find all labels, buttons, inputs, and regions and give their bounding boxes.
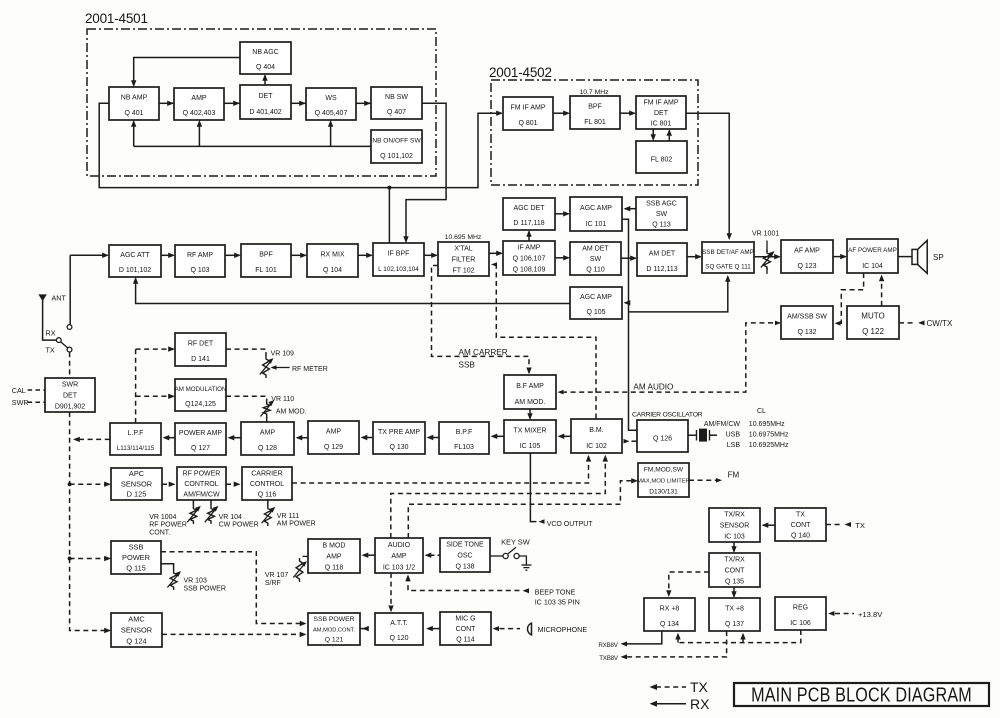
svg-text:SSB: SSB [459, 360, 476, 369]
wire BPF to RX MIX [291, 254, 306, 256]
dashed REG distribution bus [678, 630, 801, 643]
svg-text:SP: SP [933, 253, 944, 262]
dashed MICROPHONE to MIC G [493, 626, 500, 631]
svg-text:AF POWER AMP: AF POWER AMP [848, 247, 897, 254]
block AMP Q402,403 [174, 88, 224, 120]
dashed AMC SENSOR to Q121 lower [162, 633, 305, 635]
wire riser to NB AMP bottom [133, 122, 135, 147]
dashed TXRX CONT to RX+8 [669, 572, 709, 595]
block SSB DET/AF AMP SQ GATE Q111 [702, 242, 754, 273]
VR1004 potentiometer [192, 500, 194, 505]
svg-text:SSB: SSB [129, 542, 144, 551]
svg-text:TX +8: TX +8 [725, 606, 744, 613]
svg-text:10.6975MHz: 10.6975MHz [749, 432, 789, 439]
wire AF POWER AMP to speaker [898, 256, 912, 258]
svg-text:Q 110: Q 110 [586, 267, 605, 274]
group box 2001-4501 [87, 29, 436, 176]
dashed BEEP TONE into AUDIO AMP [405, 575, 410, 582]
svg-text:A.T.T.: A.T.T. [390, 620, 408, 627]
block AF AMP Q123 [781, 240, 833, 273]
VR110 potentiometer [263, 401, 270, 417]
block AGC AMP Q105 [570, 287, 622, 319]
svg-text:CONT: CONT [456, 626, 477, 633]
wire IF AMP to AM DET SW [555, 257, 569, 259]
wire DET to NB AGC [264, 76, 266, 86]
svg-text:Q 128: Q 128 [258, 445, 277, 452]
svg-text:CONT.: CONT. [149, 529, 170, 536]
speaker symbol SP [912, 249, 918, 264]
svg-text:2001-4502: 2001-4502 [489, 65, 552, 80]
svg-text:VR 103: VR 103 [184, 578, 207, 585]
VR109 potentiometer [263, 356, 270, 378]
svg-text:RX: RX [46, 329, 56, 338]
dashed AM MODULATION to VR110 [226, 396, 267, 401]
wire TXRX CONT to TX+8 [733, 587, 735, 597]
block SIDE TONE OSC Q138 [440, 538, 490, 572]
crystal symbol [696, 430, 698, 441]
block carrier oscillator Q126 [637, 420, 688, 452]
svg-text:NB AGC: NB AGC [252, 49, 278, 56]
svg-text:AM MODULATION: AM MODULATION [175, 386, 227, 393]
VR104 potentiometer [210, 500, 212, 505]
svg-text:L113/114/115: L113/114/115 [117, 445, 155, 452]
svg-text:+13.8V: +13.8V [858, 610, 883, 619]
VR111 potentiometer [267, 500, 269, 506]
block REG IC106 [775, 597, 826, 630]
block IF BPF L102,103,104 [373, 243, 424, 276]
svg-text:AMP: AMP [326, 554, 342, 561]
svg-text:AF AMP: AF AMP [794, 248, 820, 255]
block AMC SENSOR Q124 [111, 613, 162, 647]
svg-text:TX PRE AMP: TX PRE AMP [378, 429, 420, 436]
wire AGC bus branch to SSB DET bottom [629, 277, 728, 312]
svg-text:VCO OUTPUT: VCO OUTPUT [547, 521, 594, 528]
svg-text:AM POWER: AM POWER [277, 521, 316, 528]
VR107 potentiometer [303, 555, 309, 557]
svg-text:Q 105: Q 105 [586, 309, 605, 316]
block SSB POWER Q121 [308, 613, 360, 645]
dashed CAL input [28, 389, 45, 391]
switch contact RX [67, 325, 72, 330]
svg-text:RX +8: RX +8 [660, 606, 680, 613]
dashed carrier line XTAL to BM [491, 262, 497, 267]
block TX CONT Q140 [775, 508, 826, 541]
svg-text:MIC G: MIC G [455, 615, 475, 622]
dashed branch into AM MODULATION [136, 395, 174, 397]
svg-text:Q 402,403: Q 402,403 [183, 110, 216, 117]
block AGC DET D117,118 [503, 198, 555, 230]
svg-text:RX: RX [690, 696, 710, 712]
svg-text:AM/FM/CW: AM/FM/CW [704, 421, 741, 428]
svg-text:DET: DET [63, 393, 78, 400]
svg-text:SIDE TONE: SIDE TONE [446, 542, 484, 549]
block NB AGC Q404 [240, 42, 291, 74]
microphone symbol [527, 622, 531, 635]
svg-text:AM DET: AM DET [649, 251, 676, 258]
svg-text:Q 135: Q 135 [725, 578, 744, 585]
block WS Q405,407 [306, 88, 356, 120]
block TX PRE AMP Q130 [373, 422, 425, 454]
svg-text:CARRIER OSCILLATOR: CARRIER OSCILLATOR [632, 412, 703, 419]
svg-text:IC 103 35 PIN: IC 103 35 PIN [535, 598, 580, 607]
svg-text:SENSOR: SENSOR [720, 523, 750, 530]
svg-text:Q 405,407: Q 405,407 [315, 110, 348, 117]
svg-text:DET: DET [654, 110, 669, 117]
svg-text:Q 130: Q 130 [389, 444, 408, 451]
wire AMP Q129 to AMP Q128 [300, 437, 309, 439]
svg-text:Q 407: Q 407 [387, 109, 406, 116]
svg-text:D 401,402: D 401,402 [249, 109, 281, 116]
svg-text:TX MIXER: TX MIXER [513, 428, 546, 435]
junction on NB loop [387, 186, 391, 190]
svg-text:Q 104: Q 104 [323, 267, 342, 274]
wire MIC G to ATT [432, 628, 441, 630]
dashed RF POWER CONTROL to CARRIER CONTROL [226, 483, 239, 485]
wire FL802 to IC801 [668, 131, 670, 142]
dashed TX+8 output TXB8V [623, 631, 727, 657]
wire SSB POWER Q115 to VR103 [161, 564, 174, 570]
wire NB ON/OFF SW control bus [134, 145, 371, 147]
svg-text:FM IF AMP: FM IF AMP [644, 99, 679, 106]
wire AGC feedback to AGC ATT bottom [136, 279, 570, 304]
block XTAL FILTER FT102 [438, 242, 489, 276]
switch arm [61, 342, 68, 348]
svg-text:SWR: SWR [62, 382, 78, 389]
svg-text:POWER: POWER [122, 553, 150, 562]
svg-text:TX: TX [796, 511, 805, 518]
svg-text:Q 116: Q 116 [258, 492, 277, 499]
svg-text:AM CARRER: AM CARRER [459, 348, 508, 357]
svg-text:Q 134: Q 134 [660, 621, 679, 628]
dashed IC104 to AM/SSB SW [838, 273, 864, 323]
svg-text:CARRIER: CARRIER [251, 470, 283, 477]
block NB AMP Q401 [109, 87, 159, 120]
block BPF FL103 [439, 422, 489, 454]
svg-text:CW/TX: CW/TX [927, 319, 953, 328]
block NB SW Q407 [371, 87, 422, 119]
svg-text:VR 107: VR 107 [265, 572, 288, 579]
svg-text:Q 124: Q 124 [126, 636, 146, 645]
legend TX dashed arrow [656, 686, 686, 688]
svg-text:SWR: SWR [12, 398, 29, 407]
svg-text:AM/FM/CW: AM/FM/CW [183, 492, 220, 499]
wire BPF FL801 to IC801 [620, 112, 635, 114]
svg-text:B MOD: B MOD [323, 543, 346, 550]
svg-text:APC: APC [129, 469, 145, 478]
svg-text:Q 106,107: Q 106,107 [513, 256, 546, 263]
svg-text:Q 115: Q 115 [126, 564, 146, 573]
svg-text:AMP: AMP [260, 430, 276, 437]
svg-text:CONTROL: CONTROL [250, 481, 284, 488]
svg-text:D 117,118: D 117,118 [513, 220, 544, 227]
block MIC G CONT Q114 [440, 612, 491, 645]
svg-text:NB SW: NB SW [385, 94, 408, 101]
dashed CW/TX input to MUTO [899, 322, 916, 324]
svg-text:Q 132: Q 132 [797, 329, 816, 336]
block DET D401,402 [240, 85, 291, 119]
svg-text:FT 102: FT 102 [452, 267, 474, 274]
wire SIDE TONE to KEY SW [490, 555, 503, 557]
svg-text:VR 104: VR 104 [219, 514, 242, 521]
svg-text:SENSOR: SENSOR [121, 479, 152, 488]
svg-text:Q 114: Q 114 [456, 637, 475, 644]
wire RX+8 output RXB8V [623, 631, 662, 644]
svg-text:FL 101: FL 101 [255, 267, 277, 274]
svg-text:X'TAL: X'TAL [454, 246, 472, 253]
block FM MOD SW limiter D130/131 [637, 463, 690, 497]
block AMP Q128 [241, 422, 294, 455]
svg-text:Q 118: Q 118 [325, 564, 344, 571]
svg-text:RF AMP: RF AMP [187, 252, 213, 259]
wire ATT to SSB POWER Q121 [360, 628, 368, 630]
block B MOD AMP Q118 [308, 539, 360, 573]
svg-text:CONT: CONT [725, 568, 746, 575]
block TX+8 Q137 [709, 598, 760, 631]
svg-text:SSB AGC: SSB AGC [646, 200, 677, 207]
wire SSB AGC SW to IC101 [625, 208, 636, 210]
svg-text:CL: CL [757, 408, 766, 415]
svg-text:TX: TX [46, 345, 55, 354]
wire IC801 to FL802 [652, 129, 654, 140]
wire NB AGC feedback to NB AMP [134, 58, 240, 86]
svg-text:CAL: CAL [12, 386, 26, 395]
svg-text:10.695 MHz: 10.695 MHz [445, 234, 482, 241]
svg-text:BPF: BPF [259, 252, 273, 259]
wire RF AMP to BPF [225, 254, 240, 256]
block TX/RX CONT Q135 [709, 553, 760, 587]
svg-text:MICROPHONE: MICROPHONE [538, 625, 588, 634]
svg-text:AGC DET: AGC DET [513, 205, 545, 212]
svg-text:RF DET: RF DET [188, 341, 214, 348]
dashed APC to RF POWER CONTROL [162, 483, 174, 485]
svg-text:RX MIX: RX MIX [320, 252, 344, 259]
block AM/SSB SW Q132 [781, 306, 833, 339]
svg-text:Q 140: Q 140 [791, 533, 810, 540]
svg-text:Q 113: Q 113 [652, 222, 671, 229]
wire FM IF AMP to BPF FL801 [553, 112, 569, 114]
block AGC AMP IC101 [570, 197, 622, 231]
group box 2001-4502 [491, 80, 698, 185]
svg-text:Q124,125: Q124,125 [185, 401, 216, 408]
dashed AM AUDIO line BF AMP to AM/SSB SW [558, 390, 564, 395]
dashed CARRIER CONTROL to BM bottom [292, 457, 589, 484]
wire DET to WS [291, 102, 306, 104]
wire BF AMP to TX MIXER [529, 409, 531, 419]
wire POWER AMP to LPF [167, 437, 175, 439]
svg-text:AM,MOD,CONT.: AM,MOD,CONT. [313, 627, 355, 633]
VR1001 potentiometer [766, 241, 768, 253]
svg-text:AM DET: AM DET [582, 245, 609, 252]
wire AGC DET to AGC AMP IC101 [555, 213, 569, 215]
wire RX input to AGC ATT [70, 254, 107, 256]
svg-text:KEY SW: KEY SW [501, 538, 530, 547]
dashed SWR input [28, 401, 45, 403]
block LPF L113/114/115 [110, 423, 161, 455]
wire AGC bus arrow into AGC AMP Q105 [625, 302, 629, 304]
block RF POWER CONTROL [177, 467, 226, 500]
dashed branch to SSB POWER Q115 [68, 557, 72, 561]
svg-text:FL 801: FL 801 [584, 119, 606, 126]
svg-text:SENSOR: SENSOR [121, 626, 152, 635]
svg-text:MAIN PCB BLOCK DIAGRAM: MAIN PCB BLOCK DIAGRAM [751, 684, 972, 706]
svg-text:IC 106: IC 106 [790, 620, 811, 627]
wire IF BPF to XTAL FILTER [424, 254, 437, 256]
wire TX PRE AMP to AMP Q129 [365, 437, 374, 439]
switch contact TX [67, 347, 72, 352]
svg-text:POWER AMP: POWER AMP [179, 430, 223, 437]
antenna symbol ANT [38, 294, 46, 301]
block TX/RX SENSOR IC103 [709, 508, 760, 542]
svg-text:DET: DET [259, 93, 274, 100]
wire BPF FL103 to TX PRE AMP [431, 437, 440, 439]
svg-text:SSB POWER: SSB POWER [313, 616, 354, 623]
svg-text:IC 801: IC 801 [651, 121, 672, 128]
wire VR110 into AMP Q128 [266, 417, 268, 422]
block SSB POWER Q115 [111, 541, 161, 574]
wire TX CONT to TXRX SENSOR [767, 524, 776, 526]
RF METER tap arrow [272, 367, 290, 369]
svg-text:AGC ATT: AGC ATT [120, 252, 150, 259]
wire TX MIXER to BPF FL103 [495, 435, 504, 437]
svg-text:MUTO: MUTO [861, 312, 884, 321]
svg-text:AMP: AMP [391, 553, 407, 560]
svg-text:D901,902: D901,902 [55, 403, 85, 410]
block POWER AMP Q127 [175, 423, 226, 455]
svg-text:Q 121: Q 121 [325, 637, 344, 644]
svg-text:USB: USB [726, 432, 741, 439]
svg-text:WS: WS [325, 95, 337, 102]
svg-text:NB ON/OFF SW: NB ON/OFF SW [372, 138, 421, 145]
VR103 potentiometer [170, 570, 177, 590]
block AM DET D112,113 [637, 243, 687, 276]
svg-text:IC 103: IC 103 [724, 533, 745, 540]
svg-text:2001-4501: 2001-4501 [85, 11, 148, 26]
block APC SENSOR D125 [111, 468, 162, 500]
svg-text:FL 802: FL 802 [651, 157, 673, 164]
dashed arrow into RX+8 bottom [677, 635, 679, 643]
wire riser to AMP bottom [198, 122, 200, 147]
block AUDIO AMP IC103 [375, 538, 423, 573]
wire SENSOR to TXRX CONT [733, 542, 735, 552]
dashed branch to APC SENSOR [68, 482, 72, 486]
svg-text:AMC: AMC [128, 615, 145, 624]
svg-text:SSB DET/AF AMP: SSB DET/AF AMP [702, 249, 754, 256]
dashed riser LPF to RF DET and AM MODULATION [135, 349, 137, 423]
wire AMP to DET [224, 102, 240, 104]
wire BM to TX MIXER [562, 435, 571, 437]
wire IF AMP to AGC DET [528, 232, 530, 242]
svg-text:VR 110: VR 110 [271, 396, 294, 403]
svg-text:IC 101: IC 101 [586, 221, 607, 228]
block FM IF AMP DET IC801 [636, 96, 686, 129]
svg-text:D 141: D 141 [191, 356, 210, 363]
svg-text:D130/131: D130/131 [649, 488, 678, 495]
block IF AMP Q106-109 [503, 241, 555, 275]
svg-text:CW POWER: CW POWER [219, 522, 259, 529]
wire branch to IF BPF top [388, 188, 390, 243]
svg-text:Q 126: Q 126 [653, 436, 672, 443]
dashed TX bus below SWR DET [70, 412, 110, 631]
svg-text:AMP: AMP [326, 429, 342, 436]
block AMP Q129 [308, 421, 359, 454]
block AGC ATT D101,102 [109, 245, 161, 277]
dashed AM CARRER line XTAL to BF AMP [432, 266, 530, 373]
wire SSB DET through VR1001 to AF AMP [754, 256, 780, 258]
wire XTAL FILTER to IF AMP [489, 252, 502, 254]
wire NB AMP to AMP [159, 102, 174, 104]
block BPF FL101 [241, 244, 291, 277]
svg-text:D 101,102: D 101,102 [119, 267, 151, 274]
svg-text:SW: SW [656, 211, 668, 218]
svg-text:SSB POWER: SSB POWER [184, 586, 226, 593]
svg-text:IC 104: IC 104 [862, 263, 883, 270]
svg-text:B.P.F: B.P.F [456, 429, 473, 436]
svg-text:TX/RX: TX/RX [724, 557, 745, 564]
ground symbol [521, 564, 531, 566]
wire AMP Q128 to POWER AMP [232, 437, 241, 439]
svg-text:MAX,MOD LIMITER: MAX,MOD LIMITER [637, 479, 690, 485]
wire AUDIO AMP to B MOD AMP [367, 554, 376, 556]
block TX MIXER IC105 [504, 420, 556, 453]
svg-text:TX: TX [690, 679, 709, 695]
svg-text:FILTER: FILTER [452, 257, 476, 264]
svg-text:B.M.: B.M. [589, 427, 603, 434]
wire AM DET to SSB DET [687, 256, 701, 258]
svg-text:Q 101,102: Q 101,102 [380, 153, 413, 160]
svg-text:10.7 MHz: 10.7 MHz [579, 89, 609, 96]
svg-text:L 102,103,104: L 102,103,104 [378, 266, 419, 273]
block NB ON/OFF SW Q101,102 [371, 130, 422, 163]
svg-text:Q 120: Q 120 [389, 635, 408, 642]
svg-text:L.P.F: L.P.F [128, 430, 144, 437]
svg-text:TX/RX: TX/RX [724, 512, 745, 519]
svg-text:IF BPF: IF BPF [388, 251, 410, 258]
svg-text:10.6925MHz: 10.6925MHz [749, 442, 789, 449]
block AM MODULATION Q124,125 [175, 379, 227, 411]
svg-text:AM AUDIO: AM AUDIO [633, 382, 673, 391]
dashed Q115 to SSB POWER Q121 upper [161, 552, 305, 624]
legend RX solid arrow [654, 703, 686, 705]
dashed TX input to TX CONT [826, 524, 843, 526]
svg-text:AUDIO: AUDIO [388, 542, 411, 549]
svg-text:D 112,113: D 112,113 [646, 266, 677, 273]
wire riser to WS bottom [330, 122, 332, 147]
block RF DET D141 [175, 333, 226, 366]
wire NB AMP input loop to FM IF AMP [99, 103, 501, 187]
svg-text:LSB: LSB [727, 442, 741, 449]
dashed 13.8V input to REG [828, 611, 835, 616]
svg-text:RF METER: RF METER [292, 366, 328, 373]
block RX MIX Q104 [307, 244, 358, 277]
svg-text:IC 102: IC 102 [586, 443, 607, 450]
svg-text:TX: TX [855, 521, 865, 530]
svg-text:Q 108,109: Q 108,109 [513, 266, 546, 273]
dashed AUDIO AMP to BM bottom [391, 457, 606, 539]
wire RX MIX to IF BPF [358, 254, 372, 256]
dashed arrow into TX+8 bottom [742, 635, 744, 643]
svg-text:Q 103: Q 103 [190, 267, 209, 274]
dashed FM MOD limiter output FM [689, 479, 716, 481]
block ATT Q120 [375, 613, 423, 645]
block AM DET SW Q110 [570, 242, 621, 275]
svg-text:Q 401: Q 401 [124, 110, 143, 117]
block FM IF AMP Q801 [503, 97, 553, 130]
svg-text:SW: SW [590, 256, 602, 263]
svg-text:TXB8V: TXB8V [599, 655, 619, 662]
block BPF FL801 [570, 96, 620, 129]
wire AGC ATT to RF AMP [161, 254, 174, 256]
svg-text:Q 801: Q 801 [518, 120, 537, 127]
